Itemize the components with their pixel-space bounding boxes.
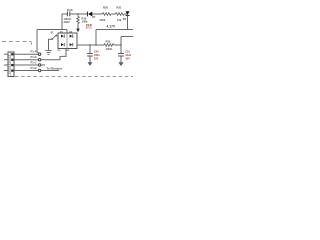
node junction C10 drop bbox=[61, 29, 62, 30]
svg-text:P1-A: P1-A bbox=[31, 50, 37, 54]
svg-text:C10: C10 bbox=[67, 8, 73, 12]
node junction 4.17V drop bbox=[95, 44, 96, 45]
svg-text:P1-D: P1-D bbox=[31, 66, 37, 70]
wire C10 left drop bbox=[62, 14, 67, 30]
wire pin4 bbox=[41, 70, 59, 72]
dashed enclosure bottom bbox=[15, 76, 133, 78]
svg-text:S1: S1 bbox=[51, 32, 55, 35]
dashed enclosure top-left bbox=[2, 41, 32, 43]
pin P1-D bbox=[38, 69, 40, 71]
wire stub pin1 left bbox=[4, 53, 8, 55]
wire pin1 riser bbox=[37, 30, 39, 54]
resistor R20 bbox=[103, 13, 111, 16]
rail 4.17V bbox=[96, 29, 133, 31]
wire R20-R21 bbox=[111, 13, 116, 15]
pin P1-B bbox=[38, 59, 40, 61]
PL1 terminal squares bbox=[11, 53, 13, 71]
ground arrow C15 bbox=[118, 62, 123, 66]
wire top rail bbox=[70, 13, 87, 15]
wire bridge output bbox=[77, 44, 104, 46]
wire pin3 stub bbox=[41, 64, 45, 66]
wire R22 to C15 bbox=[114, 44, 121, 46]
diode D8 bbox=[126, 11, 130, 15]
svg-text:16V: 16V bbox=[125, 56, 130, 60]
capacitor C20 bbox=[87, 53, 93, 55]
svg-text:D6: D6 bbox=[67, 50, 71, 52]
svg-text:07-G: 07-G bbox=[86, 25, 92, 29]
node junction C20 bbox=[89, 44, 90, 45]
resistor R19 bbox=[77, 14, 80, 26]
pin P1-C bbox=[38, 64, 40, 66]
wire switch-ground bbox=[49, 39, 52, 50]
svg-text:25V: 25V bbox=[94, 56, 99, 60]
wire stub pin3 left bbox=[4, 64, 8, 66]
svg-text:R20: R20 bbox=[103, 6, 108, 10]
pin P1-A bbox=[38, 53, 40, 55]
wire bridge top stub bbox=[66, 30, 68, 34]
svg-text:400V: 400V bbox=[64, 20, 70, 24]
wire row4 bbox=[14, 70, 38, 72]
svg-text:100n: 100n bbox=[94, 53, 100, 57]
svg-text:10uF: 10uF bbox=[125, 53, 131, 57]
wire stub pin4 left bbox=[4, 70, 8, 72]
resistor R21 bbox=[116, 13, 124, 16]
wire R21-D8 bbox=[124, 13, 128, 15]
node junction R19 bbox=[77, 13, 78, 14]
wire row2 bbox=[14, 59, 38, 61]
node junction C15 bbox=[120, 44, 121, 45]
wire stub pin2 left bbox=[4, 59, 8, 61]
svg-text:R21: R21 bbox=[117, 6, 122, 10]
svg-text:4.17V: 4.17V bbox=[107, 25, 116, 29]
bridge rectifier box bbox=[58, 33, 77, 49]
capacitor C15 bbox=[118, 53, 124, 55]
resistor R22 bbox=[104, 44, 114, 47]
diode D6 bbox=[70, 43, 73, 46]
wire bridge bottom to pin2 bbox=[41, 49, 66, 60]
diode D3 bbox=[61, 35, 64, 38]
svg-text:D8: D8 bbox=[123, 18, 127, 21]
rail lower right bbox=[121, 36, 133, 38]
svg-text:C20: C20 bbox=[94, 50, 99, 54]
wire row3 bbox=[14, 64, 38, 66]
switch S1 bbox=[56, 35, 57, 36]
label PL1 vertical bbox=[8, 55, 10, 74]
ground arrow C20 bbox=[88, 62, 93, 66]
diode D4 bbox=[70, 35, 73, 38]
wire top feed bbox=[37, 29, 67, 31]
svg-text:C15: C15 bbox=[125, 50, 130, 54]
svg-text:P1-C: P1-C bbox=[31, 61, 37, 65]
capacitor C10 bbox=[66, 12, 68, 17]
svg-text:10k: 10k bbox=[117, 18, 122, 22]
wire rail to R20 bbox=[92, 13, 103, 15]
wire C20 drop bbox=[89, 45, 91, 53]
svg-text:100R: 100R bbox=[106, 47, 112, 51]
connector PL1 block bbox=[8, 52, 14, 77]
svg-text:D5: D5 bbox=[58, 50, 62, 52]
svg-text:R22: R22 bbox=[106, 40, 111, 44]
wire 4.17V drop bbox=[95, 30, 97, 46]
wire D8 drop bbox=[127, 15, 129, 29]
svg-text:D7: D7 bbox=[92, 16, 96, 19]
svg-text:330k: 330k bbox=[100, 18, 106, 22]
diode D5 bbox=[61, 43, 64, 46]
svg-text:P1-B: P1-B bbox=[31, 55, 37, 59]
ground arrow R19 bbox=[77, 26, 79, 29]
wire row1 bbox=[14, 53, 38, 55]
wire C15 riser bbox=[120, 37, 122, 54]
ground bbox=[45, 50, 51, 52]
diode D7 bbox=[88, 12, 92, 17]
svg-text:100k: 100k bbox=[82, 19, 88, 23]
